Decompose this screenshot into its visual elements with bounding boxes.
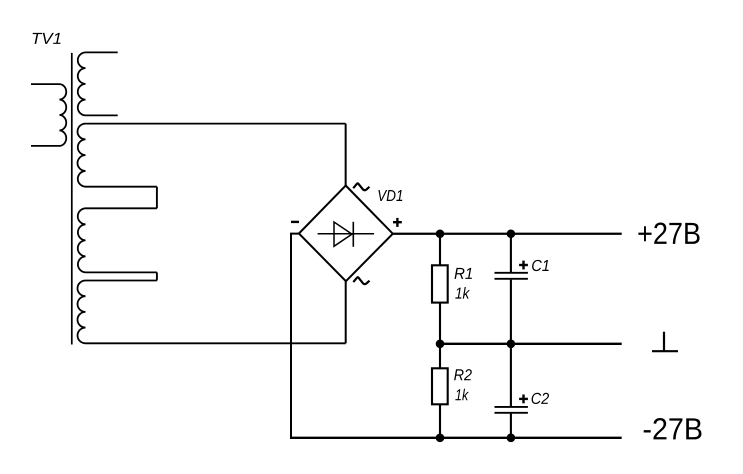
- wire: +27B rail: [393, 233, 622, 235]
- label TV1: [33, 33, 61, 44]
- minus terminal mark: [291, 221, 299, 223]
- secondary winding II: [78, 124, 346, 187]
- secondary winding III: [78, 208, 157, 272]
- wire: R1 to ground rail: [439, 303, 441, 344]
- wire: winding II to bridge AC top: [345, 124, 347, 186]
- junction node -27B / R2: [436, 434, 445, 443]
- label R1: [455, 268, 473, 279]
- label +27B: [638, 223, 699, 244]
- wire: ground rail to C2: [510, 344, 512, 406]
- wire: ground rail to R2: [439, 344, 441, 369]
- label R2 value: [455, 389, 469, 401]
- junction node -27B / C2: [507, 434, 516, 443]
- AC tilde top: [353, 183, 369, 190]
- label -27B: [644, 418, 702, 439]
- label VD1: [378, 190, 402, 201]
- wire: +27B rail to R1: [439, 234, 441, 265]
- ground terminal symbol: [652, 332, 678, 352]
- bridge rectifier VD1 diamond: [299, 186, 393, 282]
- secondary winding I: [78, 52, 118, 115]
- polarity plus of C2: [519, 395, 528, 404]
- primary winding: [31, 84, 66, 146]
- wire: R2 to -27B rail: [439, 404, 441, 438]
- wire: series link windings III-IV: [156, 272, 158, 280]
- wire: ground rail: [440, 343, 622, 345]
- secondary winding IV: [77, 281, 345, 344]
- capacitor C1: [495, 273, 528, 279]
- wire: +27B rail to C1: [510, 234, 512, 272]
- wire: C1 to ground rail: [510, 280, 512, 344]
- junction node ground / R divider: [436, 340, 445, 349]
- capacitor C2: [495, 407, 528, 413]
- resistor R2: [432, 368, 448, 404]
- transformer core: [71, 53, 73, 345]
- AC tilde bottom: [353, 277, 369, 284]
- resistor R1: [432, 265, 448, 302]
- wire: bridge minus to -27B: [291, 234, 299, 438]
- polarity plus of C1: [519, 261, 528, 270]
- junction node ground / C1 C2: [507, 340, 516, 349]
- diode inside bridge: [318, 222, 375, 247]
- junction node +27B / C1: [507, 229, 516, 238]
- wire: -27B rail: [290, 437, 622, 439]
- wire: C2 to -27B rail: [510, 414, 512, 438]
- junction node +27B / R1: [436, 229, 445, 238]
- label C2: [532, 393, 549, 404]
- label R1 value: [455, 287, 470, 299]
- wire: series link windings II-III: [156, 187, 158, 209]
- plus terminal mark: [393, 218, 402, 227]
- label R2: [454, 369, 472, 380]
- label C1: [532, 260, 549, 271]
- wire: bridge AC bottom to winding IV: [345, 281, 347, 343]
